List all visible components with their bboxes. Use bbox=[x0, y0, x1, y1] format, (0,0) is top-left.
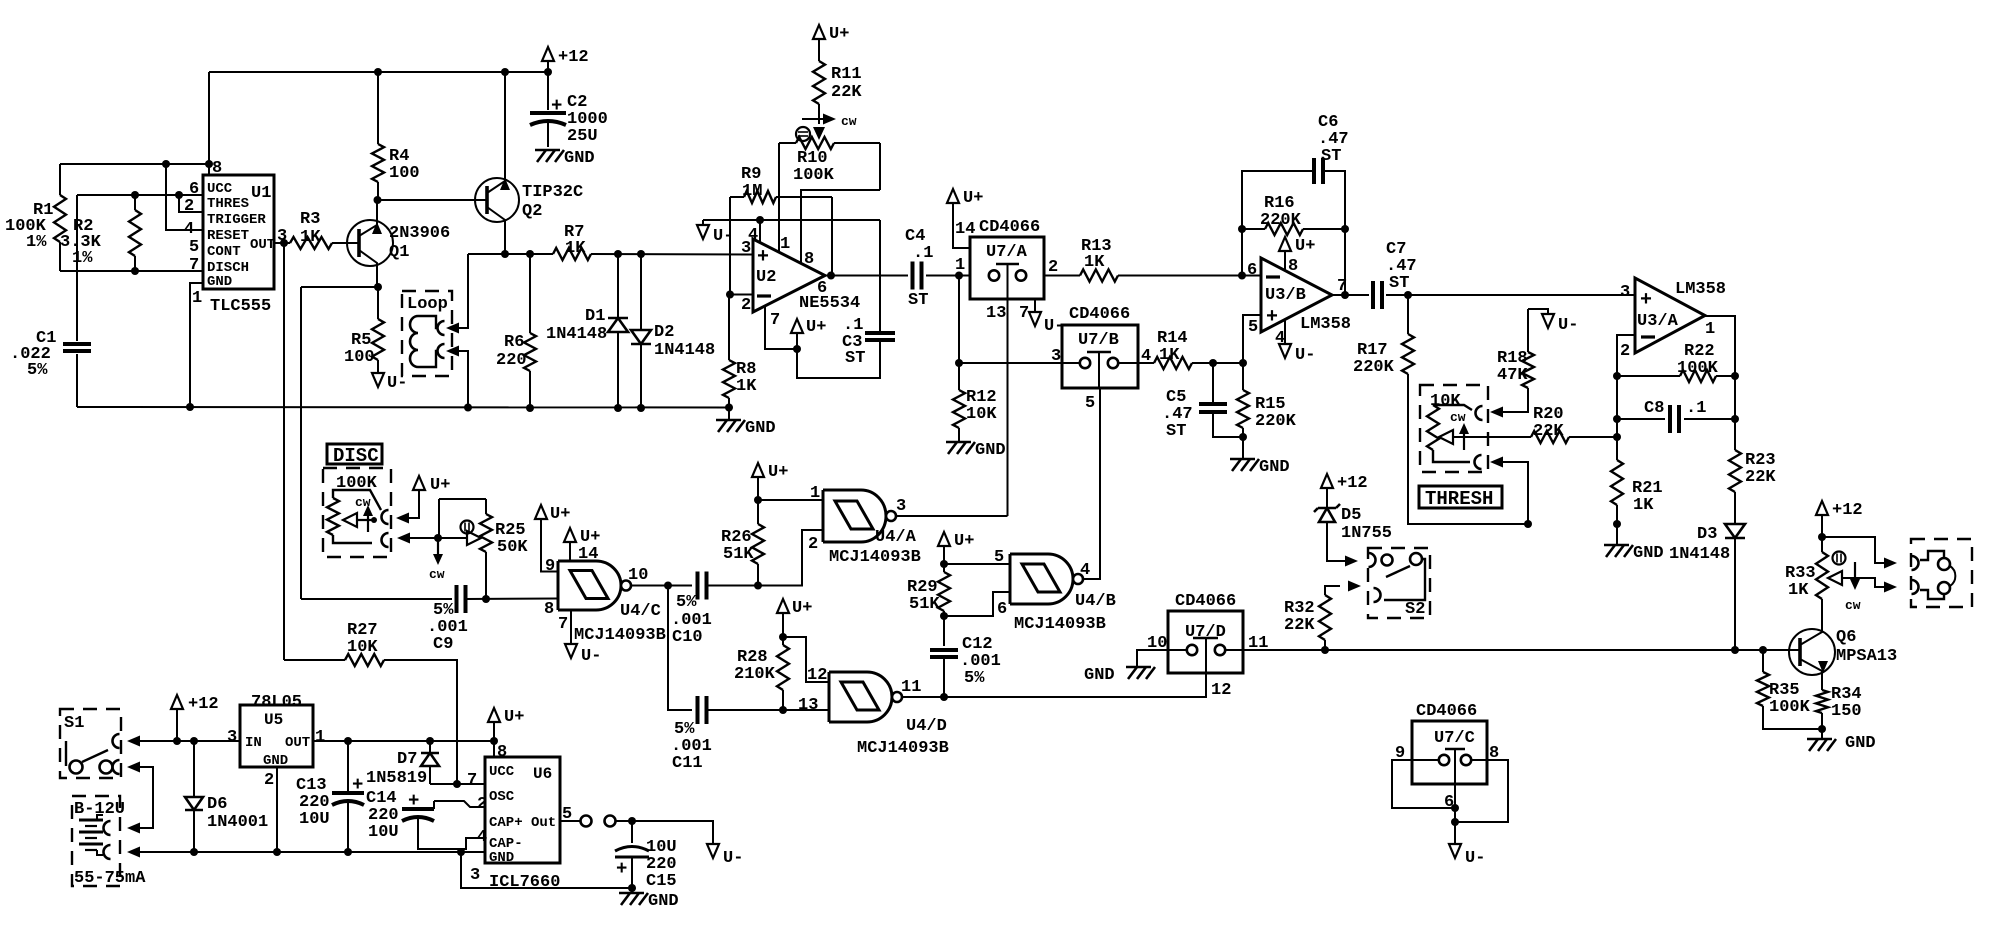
svg-text:1K: 1K bbox=[300, 228, 321, 247]
svg-text:ST: ST bbox=[1321, 147, 1341, 166]
node R12 pin3 tie bbox=[955, 359, 963, 367]
node reset tie bbox=[162, 160, 170, 168]
svg-text:U-: U- bbox=[1558, 316, 1578, 335]
transistor Q1 2N3906 bbox=[347, 200, 450, 287]
wire top +12 rail bbox=[209, 71, 548, 73]
svg-text:8: 8 bbox=[1288, 257, 1298, 276]
wire Q1 to Q2 base bbox=[378, 199, 487, 201]
wire R3 to Q1 bbox=[332, 242, 359, 244]
label U6 pin2 bbox=[477, 795, 487, 814]
wire U4D pin12 bbox=[783, 637, 829, 682]
svg-text:CD4066: CD4066 bbox=[1416, 702, 1477, 721]
ground under R21 bbox=[1604, 524, 1664, 563]
svg-text:6: 6 bbox=[817, 279, 827, 298]
svg-text:1K: 1K bbox=[1788, 581, 1809, 600]
node D3 bottom bbox=[1731, 646, 1739, 654]
svg-text:1N755: 1N755 bbox=[1341, 524, 1392, 543]
wire U5 out line bbox=[313, 740, 494, 742]
nand U4/A bbox=[823, 490, 896, 542]
svg-text:U+: U+ bbox=[430, 476, 450, 495]
svg-text:cw: cw bbox=[841, 114, 857, 129]
label U1 out bbox=[250, 237, 275, 253]
label U7D pin10 bbox=[1147, 634, 1167, 653]
capacitor C12 bbox=[930, 635, 1001, 697]
ic U7/B CD4066 bbox=[1062, 305, 1138, 388]
svg-text:U6: U6 bbox=[533, 765, 552, 783]
node R16 right bbox=[1341, 225, 1349, 233]
svg-text:2: 2 bbox=[808, 535, 818, 554]
wire U6 out bbox=[560, 820, 581, 822]
svg-text:CD4066: CD4066 bbox=[979, 218, 1040, 237]
svg-text:D1: D1 bbox=[585, 307, 605, 326]
svg-text:7: 7 bbox=[189, 256, 199, 275]
svg-text:.1: .1 bbox=[1686, 399, 1706, 418]
node R34 R35 gnd bbox=[1818, 725, 1826, 733]
svg-text:U7/B: U7/B bbox=[1078, 331, 1119, 350]
svg-text:MCJ14093B: MCJ14093B bbox=[574, 626, 666, 645]
svg-text:7: 7 bbox=[770, 311, 780, 330]
svg-text:22K: 22K bbox=[1745, 468, 1776, 487]
ground under R8 bbox=[716, 408, 776, 439]
svg-text:TLC555: TLC555 bbox=[210, 297, 271, 316]
node C7 right bbox=[1404, 291, 1412, 299]
feedback C6 bbox=[1242, 113, 1349, 295]
node U2 pin4 bbox=[756, 216, 764, 224]
svg-text:ST: ST bbox=[1166, 422, 1186, 441]
label U3B pin6 bbox=[1247, 261, 1257, 280]
node U7C tie1 bbox=[1451, 804, 1459, 812]
wire U4B pin6 bbox=[944, 592, 1010, 616]
wire R10 left / pin1 bbox=[778, 143, 780, 252]
power V- R18 bbox=[1528, 309, 1578, 335]
wire disc wiper link bbox=[397, 533, 481, 544]
wire pin8 jog bbox=[801, 190, 880, 264]
label U7D pin12 bbox=[1211, 681, 1231, 700]
svg-text:22K: 22K bbox=[1533, 422, 1564, 441]
svg-text:100K: 100K bbox=[1769, 698, 1811, 717]
svg-text:55-75mA: 55-75mA bbox=[74, 869, 146, 888]
svg-text:LM358: LM358 bbox=[1300, 315, 1351, 334]
svg-text:1: 1 bbox=[780, 235, 790, 254]
node pin8 rail junction bbox=[205, 160, 213, 168]
connector out jumpers bbox=[581, 816, 616, 827]
svg-text:12: 12 bbox=[1211, 681, 1231, 700]
svg-text:+: + bbox=[408, 790, 419, 812]
pot THRESH box bbox=[1420, 385, 1488, 472]
label U7C pin9 bbox=[1395, 744, 1405, 763]
label U7A pin2 bbox=[1048, 258, 1058, 277]
svg-text:GND: GND bbox=[263, 753, 288, 769]
label U2 pin8 bbox=[804, 250, 814, 269]
label U4D pin13 bbox=[798, 696, 818, 715]
svg-text:MCJ14093B: MCJ14093B bbox=[829, 548, 921, 567]
svg-text:1N4148: 1N4148 bbox=[654, 341, 715, 360]
power +12 D5 bbox=[1321, 474, 1368, 508]
svg-text:U+: U+ bbox=[792, 599, 812, 618]
node C15 bottom bbox=[628, 884, 636, 892]
wire U1 OUT stub bbox=[274, 242, 290, 244]
op-amp U3/B LM358 bbox=[1261, 258, 1351, 334]
switch S2 box bbox=[1368, 548, 1430, 619]
svg-text:U+: U+ bbox=[806, 318, 826, 337]
svg-text:CAP+: CAP+ bbox=[489, 815, 523, 831]
wire U4C pin9 bbox=[541, 519, 558, 572]
wire R10 right leg bbox=[879, 143, 881, 190]
svg-text:UCC: UCC bbox=[489, 764, 515, 780]
resistor R12 bbox=[953, 276, 997, 442]
resistor R21 bbox=[1611, 460, 1663, 524]
resistor R8 bbox=[723, 295, 757, 408]
svg-text:TRIGGER: TRIGGER bbox=[207, 212, 266, 228]
resistor R13 bbox=[1080, 237, 1261, 282]
resistor R34 bbox=[1816, 685, 1862, 729]
power V+ R28 bbox=[777, 599, 812, 645]
svg-text:6: 6 bbox=[997, 600, 1007, 619]
svg-text:GND: GND bbox=[1084, 666, 1115, 685]
resistor R26 bbox=[721, 524, 764, 586]
power V+ U6 bbox=[488, 708, 524, 757]
svg-text:220K: 220K bbox=[1353, 358, 1395, 377]
connector output jack box bbox=[1911, 539, 1972, 607]
wire U4A pin1 bbox=[758, 499, 823, 501]
wire S1 upper feed bbox=[127, 736, 240, 747]
node OSC junction bbox=[453, 780, 461, 788]
svg-text:1K: 1K bbox=[736, 377, 757, 396]
svg-text:10: 10 bbox=[628, 566, 648, 585]
node R22 left bbox=[1613, 372, 1621, 380]
ground C15 bbox=[619, 888, 679, 911]
svg-text:47K: 47K bbox=[1497, 366, 1528, 385]
ic U7/D CD4066 bbox=[1168, 592, 1243, 673]
node U6 vcc bbox=[490, 737, 498, 745]
wire R9 right to output bbox=[831, 197, 833, 275]
node C2 rail bbox=[544, 68, 552, 76]
wire U2 output bbox=[825, 275, 908, 277]
label U5 pin2 bbox=[264, 771, 274, 790]
node R32 bottom bbox=[1321, 646, 1329, 654]
resistor R6 bbox=[496, 254, 536, 408]
node R16 left bbox=[1238, 225, 1246, 233]
svg-text:U+: U+ bbox=[504, 708, 524, 727]
node R17 R21 tie bbox=[1524, 520, 1532, 528]
node R28 top bbox=[779, 633, 787, 641]
ic U7/A CD4066 bbox=[970, 218, 1044, 299]
capacitor C9 bbox=[427, 585, 558, 654]
svg-text:+12: +12 bbox=[1337, 474, 1368, 493]
label U5 pin1 bbox=[315, 728, 325, 747]
wire OUT bus down bbox=[283, 243, 285, 660]
label U3B pin7 bbox=[1337, 277, 1347, 296]
wire out line bbox=[615, 821, 713, 845]
svg-text:CD4066: CD4066 bbox=[1069, 305, 1130, 324]
svg-text:R6: R6 bbox=[504, 333, 524, 352]
label U4A pin2 bbox=[808, 535, 818, 554]
capacitor C13 bbox=[296, 741, 364, 852]
svg-text:R3: R3 bbox=[300, 210, 320, 229]
wire jack upper feed bbox=[1822, 537, 1897, 569]
ic U1 TLC555 bbox=[203, 175, 274, 316]
svg-text:Q6: Q6 bbox=[1836, 628, 1856, 647]
power V- U4C pin7 bbox=[565, 644, 601, 666]
svg-text:MPSA13: MPSA13 bbox=[1836, 647, 1897, 666]
wire U7C pin9 loop bbox=[1392, 760, 1455, 808]
svg-text:5: 5 bbox=[994, 548, 1004, 567]
label U1 pin 2 bbox=[184, 197, 194, 216]
node R15 top bbox=[1239, 359, 1247, 367]
label U3B pin4 bbox=[1275, 329, 1285, 348]
capacitor C4 bbox=[905, 227, 970, 310]
power +12 top bbox=[542, 47, 589, 72]
wire U4A output bbox=[896, 515, 1008, 517]
svg-text:U-: U- bbox=[387, 374, 407, 393]
capacitor C1 bbox=[10, 195, 91, 407]
wire U4B output bbox=[1083, 388, 1100, 579]
node C13 top bbox=[344, 737, 352, 745]
pot DISC wiper bbox=[343, 495, 377, 532]
node Q2 collector bbox=[501, 250, 509, 258]
svg-text:1: 1 bbox=[1705, 320, 1715, 339]
svg-text:3: 3 bbox=[1051, 347, 1061, 366]
svg-text:14: 14 bbox=[955, 220, 975, 239]
ground under R12 bbox=[946, 428, 1006, 460]
svg-text:cw: cw bbox=[1450, 410, 1466, 425]
label U2 pin1 bbox=[780, 235, 790, 254]
svg-text:NE5534: NE5534 bbox=[799, 294, 860, 313]
ground Q6 bbox=[1807, 729, 1876, 753]
node R33 top bbox=[1818, 533, 1826, 541]
svg-text:12: 12 bbox=[807, 666, 827, 685]
node C10 right bbox=[754, 582, 762, 590]
node C8 left bbox=[1613, 415, 1621, 423]
wire DISCH line bbox=[60, 270, 203, 272]
node Q2 emitter rail bbox=[501, 68, 509, 76]
node R29 top bbox=[940, 560, 948, 568]
svg-text:8: 8 bbox=[804, 250, 814, 269]
svg-text:51K: 51K bbox=[723, 545, 754, 564]
label U6 pin5 bbox=[562, 805, 572, 824]
wire gnd rail bbox=[77, 406, 729, 409]
pot R33 cw arrow bbox=[1845, 562, 1861, 613]
svg-text:D6: D6 bbox=[207, 795, 227, 814]
svg-text:220K: 220K bbox=[1260, 211, 1302, 230]
node U1 OUT bbox=[280, 239, 288, 247]
resistor R11 bbox=[813, 25, 862, 124]
wire thresh lower link bbox=[1490, 457, 1528, 525]
svg-text:GND: GND bbox=[564, 149, 595, 168]
capacitor C5 bbox=[1162, 363, 1243, 441]
svg-text:51K: 51K bbox=[909, 595, 940, 614]
capacitor C10 bbox=[671, 572, 758, 648]
label U1 pin 1 bbox=[192, 289, 202, 308]
battery B-12V box bbox=[72, 796, 125, 886]
power V+ U4C pin9 bbox=[535, 505, 570, 524]
svg-text:220K: 220K bbox=[1255, 412, 1297, 431]
svg-text:D5: D5 bbox=[1341, 506, 1361, 525]
resistor R10 pot bbox=[779, 137, 880, 185]
svg-text:C11: C11 bbox=[672, 754, 703, 773]
svg-text:25U: 25U bbox=[567, 127, 598, 146]
svg-text:GND: GND bbox=[1845, 734, 1876, 753]
svg-text:+: + bbox=[551, 95, 562, 117]
label U1 pin 5 bbox=[189, 238, 199, 257]
wire C10 to U4A pin2 bbox=[758, 530, 823, 586]
svg-text:ST: ST bbox=[908, 291, 928, 310]
label U4B pin4 bbox=[1080, 561, 1090, 580]
power V- U7A pin7 bbox=[1029, 299, 1064, 336]
svg-text:CONT: CONT bbox=[207, 244, 241, 260]
resistor R20 bbox=[1453, 405, 1617, 443]
node C5 top bbox=[1209, 359, 1217, 367]
label U7C pin8 bbox=[1489, 744, 1499, 763]
node gnd rail D2 bbox=[637, 404, 645, 412]
power V+ U7A pin14 bbox=[947, 189, 983, 248]
resistor R22 bbox=[1617, 342, 1735, 382]
label U6 pin4 bbox=[477, 828, 487, 847]
svg-text:220: 220 bbox=[496, 351, 527, 370]
svg-text:U+: U+ bbox=[829, 25, 849, 44]
svg-text:10K: 10K bbox=[1430, 392, 1461, 411]
svg-text:1M: 1M bbox=[742, 182, 762, 201]
svg-text:+: + bbox=[1266, 306, 1278, 329]
svg-text:100K: 100K bbox=[793, 166, 835, 185]
diode D6 1N4001 bbox=[185, 741, 268, 852]
ic U5 78L05 bbox=[240, 705, 313, 769]
svg-text:210K: 210K bbox=[734, 665, 776, 684]
node R29 bottom bbox=[940, 612, 948, 620]
svg-text:D2: D2 bbox=[654, 323, 674, 342]
svg-text:C15: C15 bbox=[646, 872, 677, 891]
svg-text:1%: 1% bbox=[72, 249, 93, 268]
label U2 pin4 bbox=[748, 226, 758, 245]
resistor R14 bbox=[1154, 329, 1243, 369]
svg-text:C10: C10 bbox=[672, 628, 703, 647]
resistor R15 bbox=[1237, 363, 1297, 458]
svg-text:U-: U- bbox=[713, 227, 733, 246]
wire Q6 base bbox=[1763, 649, 1800, 651]
wire U7D pin11 line bbox=[1225, 649, 1763, 651]
svg-text:1: 1 bbox=[192, 289, 202, 308]
wire VCC line to R1 bbox=[60, 163, 209, 165]
label U2 pin6 bbox=[817, 279, 827, 298]
pot R10 trimmer circle bbox=[796, 127, 810, 141]
power V- out bbox=[707, 844, 743, 868]
label U4A part bbox=[829, 548, 921, 567]
svg-text:MCJ14093B: MCJ14093B bbox=[857, 739, 949, 758]
wire U4D output bbox=[902, 696, 944, 698]
svg-text:22K: 22K bbox=[831, 83, 862, 102]
wire U7A pin13 bus bbox=[1007, 299, 1009, 516]
svg-text:Q1: Q1 bbox=[389, 243, 409, 262]
label U1 pin 3 bbox=[277, 227, 287, 246]
svg-text:OUT: OUT bbox=[250, 237, 275, 253]
svg-text:13: 13 bbox=[986, 304, 1006, 323]
svg-text:C8: C8 bbox=[1644, 399, 1664, 418]
node C15 top bbox=[628, 817, 636, 825]
svg-text:+: + bbox=[616, 858, 627, 880]
node R8 top bbox=[726, 291, 734, 299]
node R15 bottom bbox=[1239, 433, 1247, 441]
wire U4C pin14 bbox=[569, 542, 571, 561]
resistor R33 pot bbox=[1785, 537, 1846, 600]
label U3A pin3 bbox=[1620, 283, 1630, 302]
wire U7C pin8 loop bbox=[1455, 760, 1508, 822]
node C13 bottom bbox=[344, 848, 352, 856]
svg-text:GND: GND bbox=[1259, 458, 1290, 477]
pot R10 cw arrow bbox=[802, 114, 857, 130]
svg-text:5: 5 bbox=[1085, 394, 1095, 413]
node gnd rail R6 bbox=[526, 404, 534, 412]
node D7 top bbox=[426, 737, 434, 745]
label battery current bbox=[74, 869, 146, 888]
svg-text:Loop: Loop bbox=[407, 295, 448, 314]
svg-text:D7: D7 bbox=[397, 750, 417, 769]
wire jack lower feed bbox=[1842, 578, 1897, 593]
svg-text:D3: D3 bbox=[1697, 525, 1717, 544]
transistor Q6 MPSA13 bbox=[1789, 599, 1897, 690]
svg-text:1: 1 bbox=[315, 728, 325, 747]
svg-text:1N4148: 1N4148 bbox=[1669, 545, 1730, 564]
node C4 right bbox=[955, 272, 963, 280]
op-amp U3/A LM358 bbox=[1635, 278, 1726, 353]
svg-text:.1: .1 bbox=[913, 244, 933, 263]
svg-text:S2: S2 bbox=[1405, 600, 1425, 619]
svg-text:U+: U+ bbox=[768, 463, 788, 482]
resistor R3 bbox=[290, 210, 332, 249]
svg-text:3: 3 bbox=[227, 728, 237, 747]
svg-text:cw: cw bbox=[1845, 598, 1861, 613]
svg-text:100: 100 bbox=[344, 348, 375, 367]
node D1 top bbox=[614, 250, 622, 258]
svg-text:U2: U2 bbox=[756, 268, 776, 287]
svg-text:R11: R11 bbox=[831, 65, 862, 84]
svg-text:1: 1 bbox=[955, 256, 965, 275]
svg-text:GND: GND bbox=[207, 274, 232, 290]
wire S1 lower feed bbox=[127, 762, 153, 834]
resistor R4 bbox=[372, 72, 420, 200]
svg-text:U7/A: U7/A bbox=[986, 243, 1028, 262]
capacitor C2 bbox=[530, 72, 608, 147]
svg-text:11: 11 bbox=[901, 678, 921, 697]
svg-text:2: 2 bbox=[184, 197, 194, 216]
label U3A pin2 bbox=[1620, 342, 1630, 361]
switch U7D contacts bbox=[1187, 638, 1225, 655]
node D2 top bbox=[637, 250, 645, 258]
svg-text:5: 5 bbox=[189, 238, 199, 257]
label U7A pin7 bbox=[1019, 304, 1029, 323]
node U7C tie2 bbox=[1451, 818, 1459, 826]
switch S1 contacts bbox=[66, 734, 120, 774]
power V+ U3B bbox=[1279, 237, 1315, 271]
ground under C2 bbox=[535, 149, 595, 168]
wire C11 branch bbox=[668, 586, 692, 711]
wire D7 to osc bbox=[430, 783, 485, 785]
label U4D name bbox=[906, 717, 947, 736]
node U4D out bbox=[940, 693, 948, 701]
wire U2 plus input bbox=[741, 254, 753, 256]
ground under R15 bbox=[1230, 437, 1290, 477]
label THRESH bbox=[1419, 486, 1502, 510]
capacitor C15 bbox=[615, 821, 677, 891]
label U4C name bbox=[620, 602, 661, 621]
pot R10 wiper arrow bbox=[813, 127, 825, 140]
svg-text:TIP32C: TIP32C bbox=[522, 183, 583, 202]
power V+ U4C pin14 bbox=[564, 528, 600, 547]
transistor Q2 TIP32C bbox=[475, 72, 583, 254]
capacitor C7 bbox=[1373, 240, 1417, 309]
resistor R29 bbox=[907, 572, 950, 646]
label U3A pin1 bbox=[1705, 320, 1715, 339]
wire U1 pin8 vertical bbox=[208, 72, 210, 175]
